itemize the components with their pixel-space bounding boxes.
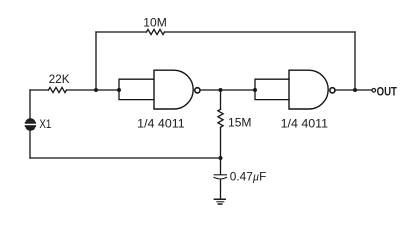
NAND gate U2 body (289, 70, 328, 109)
node output junction (353, 88, 357, 92)
wire 15M bottom lead (220, 127, 222, 174)
wire bottom horizontal (30, 157, 221, 159)
wire top right segment (165, 31, 356, 33)
svg-text:1/4 4011: 1/4 4011 (137, 116, 185, 130)
wire gate2 input tie (255, 79, 289, 99)
wire left vertical upper (corner to X1) (29, 90, 31, 119)
wire U1 output to U2 input (200, 89, 255, 91)
node gate1 input junction (117, 88, 121, 92)
svg-text:10M: 10M (143, 15, 167, 29)
svg-text:22K: 22K (49, 72, 70, 86)
wire 15M top lead (220, 90, 222, 109)
gate U2 output bubble (330, 88, 335, 93)
wire left vertical lower (X1 to bottom corner) (29, 130, 31, 158)
node 15M top junction (219, 88, 223, 92)
svg-text:1/4 4011: 1/4 4011 (281, 116, 329, 130)
svg-text:15M: 15M (228, 115, 252, 129)
NAND gate U1 body (154, 70, 193, 109)
wire right vertical (354, 32, 356, 90)
wire 22K left lead (30, 89, 49, 91)
capacitor C1 (214, 175, 227, 179)
svg-text:X1: X1 (39, 117, 51, 131)
crystal X1 (25, 118, 36, 130)
node gate2 input junction (253, 88, 257, 92)
ground (214, 199, 226, 205)
wire U2 output to terminal (335, 89, 372, 91)
wire gate1 input tie (119, 79, 154, 99)
node feedback junction (94, 88, 98, 92)
wire feedback vertical (95, 32, 97, 90)
gate U1 output bubble (195, 88, 200, 93)
resistor R2 10M (147, 29, 165, 34)
svg-text:OUT: OUT (377, 87, 397, 99)
wire R1 to gate1 input (67, 89, 120, 91)
resistor R3 15M (218, 109, 223, 127)
wire C1 to ground (220, 180, 222, 199)
wire top left segment (96, 31, 147, 33)
resistor R1 22K (49, 87, 67, 92)
svg-text:0.47µF: 0.47µF (230, 169, 267, 183)
node bottom junction (219, 156, 223, 160)
terminal open circle (372, 89, 376, 93)
